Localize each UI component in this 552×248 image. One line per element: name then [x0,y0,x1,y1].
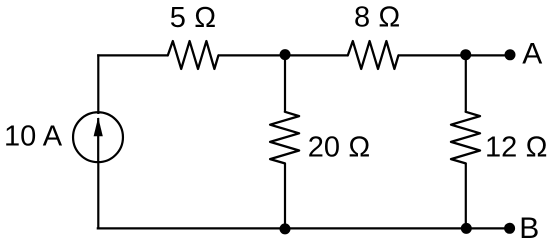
wire: left vertical below current source to bottom-left corner [97,161,99,229]
svg-text:A: A [522,38,542,71]
wire: top middle between 5ohm and node [218,54,285,56]
resistor R 20ohm zigzag vertical [270,112,299,164]
node: bottom right junction dot [461,223,472,234]
wire: top right stub to terminal A [466,54,510,56]
wire: bottom right stub to terminal B [466,227,510,229]
resistor R 8ohm zigzag [348,41,399,69]
terminal B dot [504,223,515,234]
node: top right junction dot [460,49,471,60]
svg-text:5 Ω: 5 Ω [170,2,216,34]
svg-text:10 A: 10 A [4,121,63,153]
wire: middle branch lower stub [284,163,286,229]
svg-text:20 Ω: 20 Ω [308,131,371,163]
wire: left vertical from top-left corner down to current source [97,54,99,114]
resistor R 5ohm zigzag [168,41,219,69]
current source arrowhead [94,117,103,136]
current source arrow shaft [97,118,99,161]
wire: bottom horizontal [97,227,466,229]
current source I1 circle [73,112,123,162]
svg-text:B: B [519,212,539,245]
terminal A dot [505,49,516,60]
wire: top left horizontal to resistor 5ohm [97,54,168,56]
resistor R 12ohm zigzag vertical [451,112,480,164]
wire: top between node and resistor 8ohm [285,54,348,56]
svg-text:12 Ω: 12 Ω [485,131,548,163]
wire: top right between 8ohm and node [398,54,465,56]
wire: right branch lower stub [465,163,467,229]
wire: middle branch upper stub [284,55,286,112]
wire: right branch upper stub [465,55,467,112]
svg-text:8 Ω: 8 Ω [354,2,400,34]
node: top middle junction dot [280,49,291,60]
node: bottom middle junction dot [280,223,291,234]
